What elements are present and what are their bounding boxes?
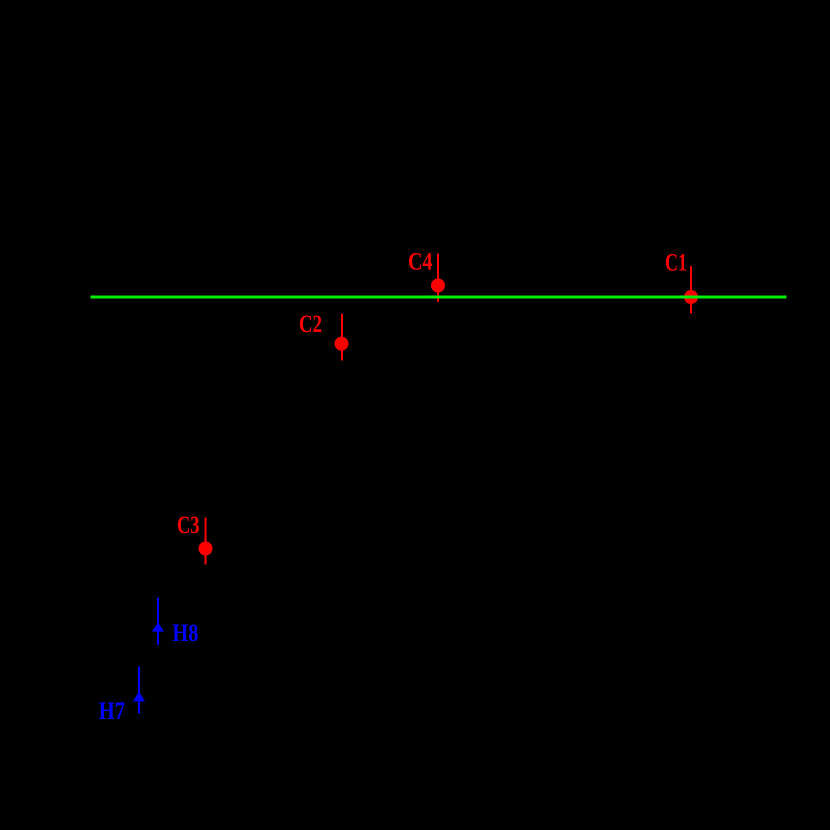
svg-text:C3: C3 — [177, 512, 200, 539]
svg-text:C2: C2 — [299, 311, 322, 338]
svg-text:H8: H8 — [172, 620, 198, 647]
svg-text:H7: H7 — [99, 698, 125, 725]
svg-text:C4: C4 — [408, 249, 433, 276]
svg-text:C1: C1 — [665, 250, 687, 277]
